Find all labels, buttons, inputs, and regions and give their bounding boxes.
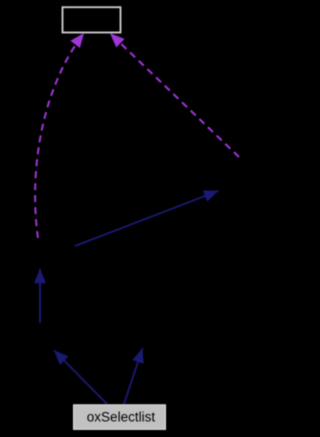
node oxSelectlist: [74, 405, 166, 430]
svg-text:oxSelectlist: oxSelectlist: [87, 409, 156, 424]
wire: solid blue inheritance edge vertical left: [39, 269, 41, 323]
wire: dashed purple usage edge, curved, from node near (38,238) to top box: [35, 33, 84, 238]
wire: solid blue inheritance edge from oxSelectlist up-right: [124, 348, 143, 404]
node: top class box (empty/dark): [63, 7, 121, 32]
wire: solid blue inheritance edge diagonal middle: [75, 191, 219, 246]
wire: dashed purple usage edge, straight, from (239,157) to top box: [110, 33, 239, 157]
wire: solid blue inheritance edge from oxSelectlist up-left: [54, 350, 107, 404]
